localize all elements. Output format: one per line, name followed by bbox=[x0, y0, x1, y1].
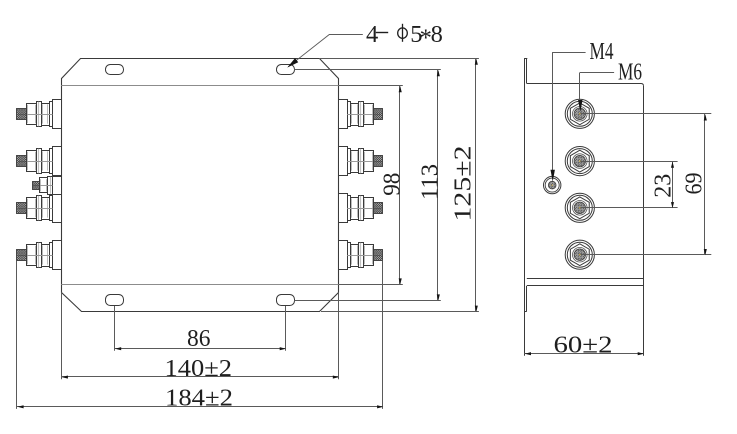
svg-text:M4: M4 bbox=[590, 39, 614, 65]
svg-text:23: 23 bbox=[649, 174, 676, 198]
svg-text:113: 113 bbox=[417, 164, 444, 200]
svg-text:M6: M6 bbox=[618, 59, 642, 85]
svg-text:4: 4 bbox=[366, 21, 378, 48]
svg-text:184±2: 184±2 bbox=[165, 384, 233, 411]
svg-text:69: 69 bbox=[680, 173, 707, 195]
svg-text:98: 98 bbox=[379, 173, 406, 196]
svg-text:140±2: 140±2 bbox=[165, 355, 233, 382]
svg-text:125±2: 125±2 bbox=[450, 146, 477, 222]
svg-text:86: 86 bbox=[187, 325, 211, 352]
svg-text:60±2: 60±2 bbox=[554, 331, 613, 358]
svg-text:8: 8 bbox=[431, 21, 443, 48]
